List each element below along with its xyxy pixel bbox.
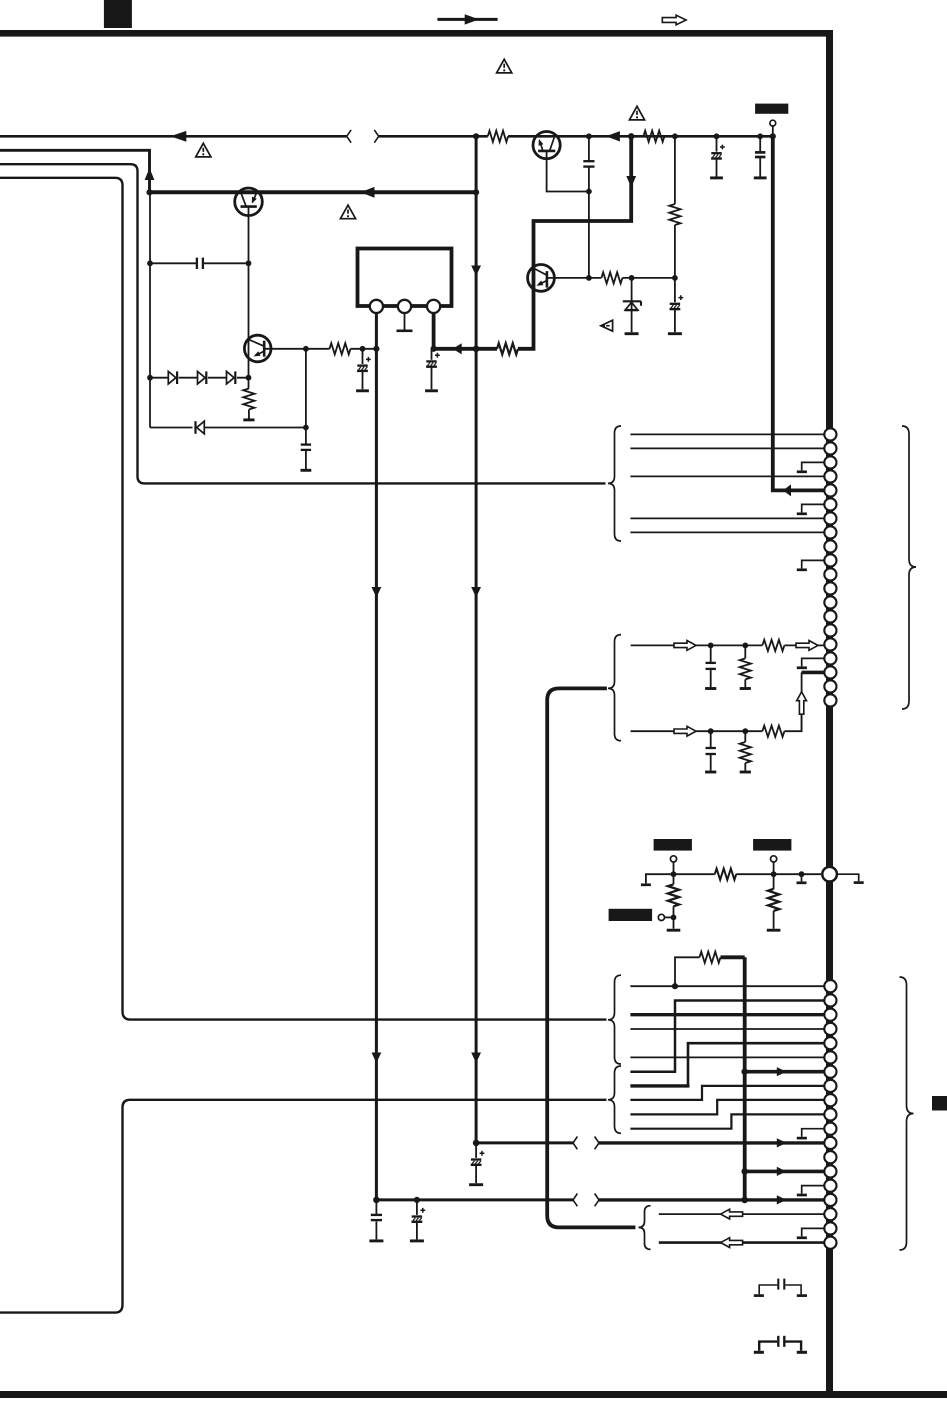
CN-A wire pin2 bbox=[630, 447, 824, 449]
warning triangle (below top wire) bbox=[196, 143, 211, 157]
CN-C staircase wire row9 from row10 bbox=[630, 1100, 824, 1115]
wire Q2 base to resistor node bbox=[264, 348, 306, 350]
IC regulator box bbox=[358, 249, 452, 307]
capacitor C-i below wire1 bbox=[710, 645, 712, 687]
wire Q1 base down to Q2 bbox=[248, 207, 250, 378]
brace group D bbox=[639, 1206, 651, 1250]
connector pin circles series 2 bbox=[824, 980, 836, 992]
group B wire 2 bbox=[631, 714, 802, 731]
trimmer row wire with left chassis stub bbox=[646, 874, 821, 883]
wire bus line 4 (left edge, rounded corner, to brace group C1 point) bbox=[0, 178, 607, 1020]
CN-A pin10 ground stub bbox=[802, 560, 824, 568]
electrolytic cap C-g top row bbox=[716, 136, 718, 151]
CN-C pin11 ground stub bbox=[802, 1129, 824, 1137]
IC pin 2 circle bbox=[398, 300, 411, 313]
IC pin1 long vertical to bottom wire bbox=[376, 313, 573, 1200]
capacitor C-j below wire2 bbox=[710, 731, 712, 770]
wire bus line 3 (left edge, rounded corner, to brace of CN group A) bbox=[0, 164, 606, 483]
capacitor-to-chassis symbol 2 bbox=[759, 1342, 801, 1351]
warning triangle left-pointing bbox=[601, 320, 613, 331]
brace group C2 bbox=[608, 1066, 621, 1133]
electrolytic cap C-k below x=476 corner bbox=[475, 1143, 477, 1158]
thick supply rail y=191 with left arrow bbox=[150, 190, 477, 194]
thick loop IC pin3 - corner - top wire bbox=[434, 136, 632, 348]
junction diode row / vertical bbox=[303, 425, 309, 431]
terminal circle B bbox=[771, 856, 777, 862]
diode D3 bbox=[227, 371, 235, 384]
chassis stub below trimmer row bbox=[801, 874, 803, 881]
CN-C thick wire row16 from IC pin1 corner bbox=[599, 1198, 824, 1201]
black label box left bbox=[609, 909, 653, 921]
warning triangle above resistor bbox=[629, 106, 644, 120]
CN-A wire pin7 bbox=[630, 517, 824, 519]
black label box VR-2 bbox=[753, 839, 791, 851]
right brace connector series 1 bbox=[902, 426, 916, 709]
brace group C1 bbox=[608, 975, 621, 1064]
resistor R-f below node B bbox=[773, 874, 775, 889]
capacitor C-h top row bbox=[759, 136, 761, 176]
wire Q4 base elbow bbox=[547, 151, 589, 192]
transistor Q3 bbox=[528, 265, 555, 292]
CN-C wire row6 bbox=[630, 1056, 824, 1058]
page border top bar bbox=[0, 30, 833, 37]
junction at rail left end bbox=[146, 189, 152, 195]
wire Q2 row resistor to IC pin1 line bbox=[306, 348, 377, 350]
wire bus line 2 thick (left edge to corner, up arrow) bbox=[0, 150, 150, 192]
off-page break fishtail left (top wire) bbox=[347, 130, 351, 143]
CN-C wire row1 bbox=[630, 985, 824, 987]
IC pin 2 ground stub bbox=[404, 313, 406, 330]
three series diodes row bbox=[150, 377, 249, 379]
top-center solid flow arrow bbox=[437, 18, 497, 21]
CN-A wire pin1 bbox=[630, 433, 824, 435]
warning triangle top center bbox=[497, 59, 512, 73]
IC pin 3 circle bbox=[427, 300, 440, 313]
CN-C staircase wire row5 from row8 bbox=[630, 1084, 689, 1087]
CN-C wire row3 thick bbox=[630, 1013, 824, 1016]
page border right bar bbox=[826, 30, 833, 1398]
CN-C thick wire row12 from x=476 corner bbox=[599, 1141, 824, 1144]
CN-A pin18 thick stub with up-arrow feed bbox=[802, 671, 824, 675]
diode D4 (pointing left) row bbox=[150, 427, 306, 429]
transistor Q1 bbox=[235, 188, 263, 216]
page border bottom bar bbox=[0, 1391, 947, 1398]
CN-A pin3 ground stub bbox=[802, 462, 824, 470]
electrolytic cap C-d below IC pin3 corner bbox=[431, 349, 433, 360]
right-edge black tab square bbox=[932, 1096, 947, 1111]
top-left black index square bbox=[104, 0, 132, 28]
CN-C wire row4 bbox=[630, 1028, 824, 1030]
brace group A bbox=[608, 426, 621, 541]
wire vertical from Q2 node down to capacitor bbox=[305, 349, 307, 444]
electrolytic cap C-m below node x=417 bbox=[416, 1200, 418, 1215]
transistor Q2 bbox=[244, 335, 271, 362]
CN-C staircase wire row10 from row11 bbox=[630, 1114, 824, 1128]
resistor R-b vertical x=675 bbox=[674, 136, 676, 278]
wire brace group C2 point to bottom-left exit bbox=[0, 1100, 607, 1313]
CN-C staircase wire row8 from row9 bbox=[630, 1086, 824, 1100]
resistor R-c below wire1 bbox=[710, 644, 712, 646]
connector pin circles series 1 bbox=[824, 428, 836, 440]
right brace connector series 2 bbox=[900, 977, 914, 1250]
CN-A pin17 ground stub bbox=[802, 658, 824, 666]
electrolytic cap C-c below Q2 row bbox=[362, 349, 364, 364]
capacitor C-l below corner x=376 bbox=[375, 1200, 377, 1240]
diode D2 bbox=[198, 371, 206, 384]
electrolytic cap C-f below zener row bbox=[674, 278, 676, 302]
group B wire 1 (to pin16) bbox=[631, 644, 824, 646]
capacitor C-e on vertical x=589 bbox=[588, 136, 590, 278]
long vertical x=476 (down-arrow) to bottom corner bbox=[476, 136, 573, 1143]
brace group B bbox=[608, 635, 621, 741]
transistor Q4 bbox=[533, 132, 560, 159]
terminal circle C to node bbox=[658, 914, 664, 920]
resistor R-e below node A bbox=[673, 874, 675, 884]
black label box VR-1 bbox=[654, 839, 692, 851]
group D wire 2 with open left arrow bbox=[659, 1241, 824, 1244]
zener diode ZD1 bbox=[631, 278, 633, 332]
wire Q3 base row bbox=[547, 277, 675, 279]
CN-A wire pin8 bbox=[630, 531, 824, 533]
thick vertical feed x=745 bbox=[743, 957, 747, 1200]
CN-C staircase wire row2 from row7 bbox=[630, 1001, 824, 1072]
CN-C thick branch arrow row14 bbox=[745, 1170, 824, 1174]
resistor R-a vertical below diode node bbox=[248, 378, 250, 389]
top-center open flow arrow bbox=[662, 15, 686, 25]
warning triangle near Q1 bbox=[340, 205, 355, 219]
CN-C thick branch arrow row7 bbox=[745, 1070, 824, 1074]
CN-C pin18 ground stub bbox=[802, 1228, 824, 1236]
capacitor C-a (horizontal) row bbox=[150, 262, 249, 264]
black label box top right bbox=[755, 104, 788, 114]
CN-C pin15 ground stub bbox=[802, 1186, 824, 1194]
CN-A pin6 ground stub bbox=[802, 504, 824, 512]
capacitor C-b to ground bar bbox=[301, 443, 311, 445]
group D wire 1 with open left arrow bbox=[659, 1213, 824, 1215]
terminal circle A bbox=[670, 856, 676, 862]
right chassis stub bbox=[838, 874, 859, 881]
resistor R-d below wire2 bbox=[744, 731, 746, 770]
top wire right section bbox=[379, 135, 775, 138]
capacitor-to-chassis symbol 1 bbox=[759, 1285, 801, 1294]
resistor bridge over CN group C bbox=[675, 957, 700, 986]
wire thin vertical from rail junction down bbox=[149, 192, 151, 427]
thick feed wire brace B point to vertical x=547 bbox=[547, 688, 635, 1227]
big connector circle on border bbox=[822, 867, 837, 882]
junction rail / long vertical bbox=[473, 189, 479, 195]
IC pin 1 circle bbox=[370, 300, 383, 313]
wire bus line 1 with left arrow (to left edge) bbox=[0, 135, 347, 138]
CN-A wire pin4 bbox=[630, 475, 824, 477]
thick feed wire to CN pin5 (left arrow) bbox=[773, 136, 824, 490]
diode D1 bbox=[168, 371, 176, 384]
terminal circle under label bbox=[770, 120, 776, 126]
off-page break fishtail right (top wire) bbox=[374, 130, 378, 143]
